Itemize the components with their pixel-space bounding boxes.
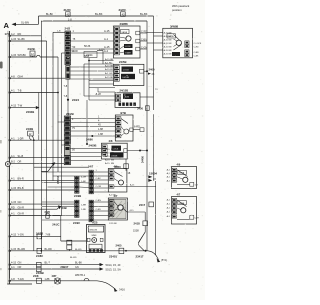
svg-text:BL-?: BL-? <box>45 261 51 265</box>
svg-text:A-1: A-1 <box>167 207 171 210</box>
svg-text:4-8: 4-8 <box>11 74 15 78</box>
svg-text:LOCK: LOCK <box>125 46 131 48</box>
svg-text:1-BR: 1-BR <box>81 205 86 207</box>
wire riser to line A <box>38 16 40 24</box>
svg-text:A-15: A-15 <box>105 155 110 158</box>
svg-text:1-88: 1-88 <box>45 278 51 281</box>
svg-text:4-15: 4-15 <box>11 233 17 237</box>
svg-text:4-15: 4-15 <box>11 261 17 265</box>
svg-text:BL-RD: BL-RD <box>18 247 26 251</box>
starter switch element 4/7 (shaded) <box>108 194 127 225</box>
svg-text:A: A <box>4 21 10 30</box>
in-line connector ladder lower-right <box>89 200 91 204</box>
wire 2418 drop <box>144 226 146 232</box>
diagonal join bus <box>138 232 145 251</box>
svg-text:4-1: 4-1 <box>11 154 15 158</box>
svg-text:BN: BN <box>169 43 172 45</box>
svg-text:23401: 23401 <box>109 254 117 258</box>
frame 24/24 label box <box>84 52 97 58</box>
svg-text:Y-GN: Y-GN <box>18 233 24 237</box>
connector bar 24/2 (upper) <box>65 27 71 80</box>
wire from bus y=190 <box>10 189 75 191</box>
wire y64 to lock unit <box>84 63 114 65</box>
svg-text:7-88: 7-88 <box>45 234 51 237</box>
svg-text:4-15: 4-15 <box>11 104 17 108</box>
wire from bus y=157.7 <box>10 157 64 159</box>
ignition switch box S/W88 <box>114 22 141 58</box>
svg-text:1-BK: 1-BK <box>81 181 86 183</box>
steering lock unit 24/5B <box>114 60 144 85</box>
wire from bus y=250.8 <box>10 250 148 252</box>
svg-text:24/2B: 24/2B <box>28 47 35 51</box>
svg-text:BN: BN <box>169 53 172 55</box>
stubs box1 to V1 <box>140 32 147 34</box>
diagonal to bus <box>139 232 146 243</box>
svg-text:3450: 3450 <box>137 106 143 110</box>
svg-text:7-8: 7-8 <box>64 84 68 88</box>
svg-text:BN: BN <box>169 39 172 41</box>
svg-text:T-W: T-W <box>18 104 23 108</box>
wires lower group2 <box>48 215 75 217</box>
svg-text:24/8C: 24/8C <box>36 254 43 258</box>
svg-text:24/8: 24/8 <box>33 274 39 278</box>
box4 right wire <box>133 129 140 131</box>
svg-text:4/8: 4/8 <box>109 139 113 143</box>
svg-text:24/2B: 24/2B <box>26 127 33 131</box>
svg-text:GN-R: GN-R <box>18 205 25 209</box>
wire riser x=60.8 lower <box>60 216 62 241</box>
svg-text:4-2: 4-2 <box>11 32 15 36</box>
wire from bus y=180.6 <box>10 180 75 182</box>
svg-text:A-1: A-1 <box>167 215 171 218</box>
connector bar 24/2B (lower) <box>64 112 73 165</box>
wire bar2-box4 y=118.5 <box>71 118 116 120</box>
svg-text:BL-RD: BL-RD <box>75 249 82 251</box>
wire into box3 <box>98 91 115 93</box>
svg-text:WH-BK: WH-BK <box>18 53 27 57</box>
wire from bus y=140.2 <box>10 139 64 141</box>
svg-text:A-1: A-1 <box>167 211 171 214</box>
lock solenoid 4/8 <box>102 139 128 159</box>
wire y176 <box>53 175 90 177</box>
wire bar1 tail <box>67 79 69 117</box>
svg-text:SL-B: SL-B <box>18 154 24 158</box>
main bus V2 x=153.5 <box>153 16 155 110</box>
wires lower group <box>42 201 75 203</box>
svg-text:5013, 15, 5A: 5013, 15, 5A <box>106 267 121 271</box>
stub y50.5 <box>97 50 103 52</box>
connector 34/2C on line A <box>119 8 126 17</box>
wire y209.2 with up arrow <box>10 208 57 210</box>
svg-text:4/7: 4/7 <box>177 193 181 197</box>
wire bar2-box4 y=122.5 <box>71 122 116 124</box>
control module A/C 8W <box>87 222 106 253</box>
junction on V1 y150 <box>146 150 148 152</box>
svg-text:24/2: 24/2 <box>65 27 71 31</box>
svg-text:SL-BK: SL-BK <box>18 37 26 41</box>
wire 4-15 T-W with arrow <box>10 107 36 109</box>
svg-text:A-15 BN: A-15 BN <box>105 65 114 68</box>
svg-text:7-8: 7-8 <box>64 94 68 98</box>
wire bar2-box4 y=126.5 <box>71 126 116 128</box>
svg-text:4/9: 4/9 <box>114 165 118 169</box>
svg-text:WR/7B-1: WR/7B-1 <box>75 274 86 277</box>
svg-text:BL-BK: BL-BK <box>95 12 103 16</box>
svg-text:24/66: 24/66 <box>86 137 93 141</box>
scan speckle <box>1 2 203 297</box>
svg-text:1-DR: 1-DR <box>18 136 24 140</box>
wire bar1 to switch y=53 <box>71 52 114 54</box>
wire y187 <box>48 186 75 188</box>
svg-text:A-15: A-15 <box>104 29 110 33</box>
svg-text:73: 73 <box>155 89 158 91</box>
box3 right wire <box>140 96 154 98</box>
svg-text:24/24B: 24/24B <box>111 155 118 157</box>
svg-text:4-15: 4-15 <box>11 186 17 190</box>
svg-text:C-GN: C-GN <box>141 46 147 49</box>
wire bar2-box4 y=136 <box>71 135 116 137</box>
svg-text:GARA: GARA <box>121 31 127 34</box>
svg-text:4-1: 4-1 <box>11 89 15 93</box>
svg-text:C-BN: C-BN <box>194 52 199 54</box>
svg-text:SL-BN: SL-BN <box>21 20 29 24</box>
svg-text:C-BK: C-BK <box>194 56 199 58</box>
wire drop x=87 to box5 <box>86 100 88 144</box>
svg-text:A-15: A-15 <box>130 184 135 187</box>
wire y183 <box>42 182 75 184</box>
svg-text:b: b <box>146 108 148 110</box>
svg-text:RD: RD <box>11 205 15 209</box>
left harness bus <box>7 31 9 284</box>
in-line connector ladder upper-right <box>89 170 91 174</box>
connector 24/2B mid <box>26 127 33 136</box>
svg-text:24/5B: 24/5B <box>119 60 126 64</box>
wire from bus y=35.8 <box>10 35 42 37</box>
wire y167.2 branch <box>34 166 89 168</box>
wire from bus y=269 <box>10 268 100 270</box>
riser x103 <box>102 51 104 65</box>
svg-text:A-1: A-1 <box>167 179 171 182</box>
svg-text:BL-BK: BL-BK <box>46 13 53 16</box>
wire bar2-box4 y=131 <box>71 130 116 132</box>
wire riser x=53 <box>52 32 54 180</box>
svg-text:A-1 RD: A-1 RD <box>105 61 113 64</box>
svg-text:4-15: 4-15 <box>11 247 17 251</box>
svg-text:24/9B: 24/9B <box>74 194 81 198</box>
svg-text:LOCK: LOCK <box>113 149 119 151</box>
svg-text:BL-RD: BL-RD <box>70 257 77 259</box>
svg-text:A-1: A-1 <box>167 176 171 179</box>
svg-text:50: 50 <box>72 148 75 152</box>
svg-text:C-RD: C-RD <box>96 209 102 211</box>
svg-text:1538: 1538 <box>133 229 139 233</box>
svg-text:4/7B: 4/7B <box>120 111 126 115</box>
svg-text:GN: GN <box>75 266 79 269</box>
connector 24/2B upper <box>28 47 36 57</box>
wire y60.5 to lock unit <box>89 60 114 62</box>
wire line A (y=16) <box>39 15 154 17</box>
svg-text:1 RD BK: 1 RD BK <box>109 223 117 225</box>
svg-text:ALM: ALM <box>125 96 130 99</box>
svg-text:OR: OR <box>18 160 22 164</box>
box7 right wire <box>127 211 145 213</box>
svg-text:2400B: 2400B <box>89 144 97 148</box>
svg-text:A-15 BN: A-15 BN <box>105 58 114 61</box>
connector pair above module <box>67 240 72 244</box>
bus bottom corner <box>7 283 32 285</box>
starter contact 4/7 (right) <box>167 193 200 224</box>
in-line connector ladder upper-left <box>75 176 77 180</box>
svg-text:17A: 17A <box>5 32 11 36</box>
svg-text:12: 12 <box>29 133 32 136</box>
junction 24/66 <box>91 135 93 137</box>
svg-text:2405: 2405 <box>116 243 122 247</box>
svg-text:24/24: 24/24 <box>86 53 93 57</box>
svg-text:24/15B: 24/15B <box>120 88 129 92</box>
svg-text:4/8LDM: 4/8LDM <box>89 229 97 231</box>
wire bar1 to switch y=33 <box>71 32 114 34</box>
svg-text:BN-R: BN-R <box>18 177 24 181</box>
svg-text:BL-RD: BL-RD <box>45 248 53 251</box>
margin artifact <box>0 62 3 69</box>
svg-text:C-OR: C-OR <box>96 186 102 188</box>
curve to 2416 <box>97 281 116 289</box>
svg-text:4/9: 4/9 <box>177 163 181 167</box>
svg-text:4-15: 4-15 <box>11 200 17 204</box>
wire from bus y=204.1 <box>10 203 75 205</box>
arrowhead 5013 <box>100 267 104 270</box>
svg-text:23: 23 <box>153 178 156 181</box>
svg-text:4/7: 4/7 <box>114 194 118 198</box>
connector 31/30 on line A <box>64 8 71 17</box>
wire from bus y=78.2 <box>10 77 65 79</box>
svg-text:position: position <box>172 8 182 12</box>
switch element 4/9 <box>108 165 127 197</box>
svg-text:A-15: A-15 <box>104 45 110 49</box>
wire riser x=41.3 <box>40 21 42 251</box>
V2 lower <box>153 114 155 181</box>
svg-text:34/2C: 34/2C <box>119 8 126 12</box>
junction x58/y92.5 <box>57 92 59 94</box>
wire bar1-left stub y53 <box>62 52 66 54</box>
ground ring on bus <box>5 162 10 167</box>
passlock ignition switch 3/W88 <box>147 24 202 58</box>
wire drop x=89 <box>88 58 90 100</box>
svg-text:24456: 24456 <box>142 155 145 163</box>
junction on V1 <box>146 70 148 72</box>
svg-text:3/W88: 3/W88 <box>170 24 179 28</box>
svg-text:A-2: A-2 <box>104 49 109 53</box>
svg-text:5-2H: 5-2H <box>194 218 199 220</box>
svg-text:(5Y1): (5Y1) <box>161 258 167 262</box>
wire from bus y=41 <box>10 40 47 42</box>
bar1 pin dot <box>67 36 69 38</box>
svg-text:24/2C: 24/2C <box>52 222 59 226</box>
svg-text:A-1: A-1 <box>167 199 171 202</box>
svg-text:OR: OR <box>18 265 22 269</box>
svg-text:12: 12 <box>31 53 34 56</box>
svg-text:A-1: A-1 <box>167 203 171 206</box>
svg-text:4-15: 4-15 <box>11 53 17 57</box>
svg-text:BN-B: BN-B <box>18 186 24 190</box>
svg-text:24/9C: 24/9C <box>73 221 80 225</box>
wire riser x=38.8 <box>38 93 40 141</box>
ladder-out wires upper <box>93 171 108 173</box>
wire bar1 to switch y=41 <box>71 40 114 42</box>
connector 24/2B tails <box>29 136 34 140</box>
wire line B (y=21) <box>41 20 147 22</box>
svg-text:C-LOCK: C-LOCK <box>194 43 202 45</box>
svg-text:31/30: 31/30 <box>64 8 71 12</box>
svg-text:BL-BK: BL-BK <box>140 12 148 16</box>
in-line connector ladder lower-left <box>75 200 77 204</box>
svg-text:2402B: 2402B <box>26 110 34 114</box>
bar2 left link y122 <box>58 121 65 123</box>
svg-text:GN4: GN4 <box>18 74 24 78</box>
wire y57 with hop <box>10 56 37 58</box>
svg-text:5-7: 5-7 <box>195 184 199 186</box>
svg-text:B-2: B-2 <box>11 160 16 164</box>
svg-text:C-BK: C-BK <box>96 178 102 180</box>
svg-text:24/7: 24/7 <box>88 165 94 169</box>
junction x33.8/y140.2 <box>33 139 35 141</box>
svg-text:MM8: MM8 <box>92 235 98 237</box>
connectors on bottom arrow wires <box>37 262 42 266</box>
accessory switch 4/9 (right) <box>167 163 199 189</box>
main bus V1 x=147 <box>146 21 148 251</box>
svg-text:GN: GN <box>18 261 22 265</box>
wire riser x=46.6 <box>46 41 48 216</box>
junction dots on bus <box>40 250 42 252</box>
svg-text:T-GN: T-GN <box>18 277 24 281</box>
wire drop x=84 <box>83 64 85 96</box>
bar2 left link y145 <box>62 144 65 146</box>
svg-text:24/24B: 24/24B <box>122 77 129 79</box>
svg-text:4/87: 4/87 <box>52 275 57 278</box>
svg-text:BN: BN <box>169 50 172 52</box>
svg-text:RD: RD <box>18 32 22 36</box>
svg-text:GN: GN <box>18 200 22 204</box>
svg-text:BN: BN <box>169 46 172 48</box>
svg-text:A-15: A-15 <box>105 162 110 165</box>
svg-text:LOCK: LOCK <box>123 70 129 72</box>
svg-text:A-15 BK: A-15 BK <box>105 76 114 79</box>
svg-text:4-8: 4-8 <box>11 277 15 281</box>
svg-text:1-8: 1-8 <box>68 17 72 21</box>
bus end curve <box>148 251 159 260</box>
svg-text:24/24: 24/24 <box>72 98 79 102</box>
wire box2 to bus V1 <box>144 70 147 72</box>
svg-text:1-B: 1-B <box>57 31 61 33</box>
svg-text:A-15 RD: A-15 RD <box>105 68 114 71</box>
svg-text:2417: 2417 <box>139 203 146 207</box>
svg-text:23B07: 23B07 <box>60 265 68 269</box>
svg-text:START: START <box>125 52 132 55</box>
svg-text:T-B: T-B <box>18 89 22 93</box>
ignition switch element 4/7B <box>115 111 133 141</box>
svg-text:1-RD: 1-RD <box>81 209 87 211</box>
note: with passlock position <box>172 4 190 12</box>
svg-text:2418: 2418 <box>134 222 141 226</box>
wire from bus y=280.8 <box>10 280 97 282</box>
svg-text:15004: 15004 <box>149 171 157 175</box>
wires bar2 to lower-right <box>71 148 102 150</box>
junction arrows right <box>148 175 152 178</box>
ladder-out wires lower <box>93 201 108 203</box>
wire y172 <box>42 171 89 173</box>
wire from bus y=236.4 <box>10 235 61 237</box>
svg-text:4-DR: 4-DR <box>81 176 87 178</box>
wire box5 to V1 <box>127 150 147 152</box>
svg-text:4-1: 4-1 <box>11 265 15 269</box>
svg-text:3/W88: 3/W88 <box>120 22 129 26</box>
svg-text:5014, 15, 4F: 5014, 15, 4F <box>106 263 121 267</box>
svg-text:2416: 2416 <box>119 287 125 291</box>
wires bar1 to lock unit <box>71 66 114 68</box>
box6 right wire <box>127 186 156 188</box>
connector 24/8C on bus <box>37 248 42 253</box>
diagonal arrow 15004 <box>48 165 53 171</box>
node A (off-page arrow) <box>4 21 39 30</box>
svg-text:58-36: 58-36 <box>84 45 91 48</box>
connector on y280 <box>37 278 42 283</box>
bus junction ticks <box>9 35 11 37</box>
wire riser x=33.8 <box>33 140 35 251</box>
arrowhead 5014 <box>100 263 104 266</box>
svg-text:BL-BK: BL-BK <box>75 262 82 265</box>
svg-text:C-BN: C-BN <box>96 200 102 202</box>
svg-text:BN: BN <box>111 160 114 162</box>
svg-text:4-15: 4-15 <box>11 37 17 41</box>
svg-text:2400: 2400 <box>149 68 155 72</box>
V3 x=155.7 <box>155 181 157 255</box>
svg-text:C-RD: C-RD <box>194 47 200 49</box>
svg-text:A-1: A-1 <box>167 169 171 172</box>
junction 2400B <box>86 143 88 145</box>
svg-text:1: 1 <box>72 117 74 121</box>
interlock unit 24/15B <box>115 88 140 107</box>
wire y241 to module <box>61 240 87 242</box>
svg-text:4-1: 4-1 <box>11 177 15 181</box>
svg-text:4-1: 4-1 <box>11 212 15 216</box>
connector 3450 on V1 <box>146 106 150 111</box>
wire drop box5 to 2450 <box>125 159 127 171</box>
wire bar1 row y32.3 <box>53 31 65 33</box>
svg-text:1-88: 1-88 <box>98 128 104 131</box>
svg-text:24/2B: 24/2B <box>66 112 74 116</box>
wire riser x=58 <box>57 57 59 172</box>
svg-text:A-1 GN: A-1 GN <box>105 72 113 75</box>
wire from bus y=92.5 <box>10 92 58 94</box>
junction x140 <box>139 150 141 152</box>
wire from bus y=215.5 <box>10 215 61 217</box>
wire from bus y=163.4 <box>10 162 64 164</box>
wire from bus y=264.6 <box>10 264 100 266</box>
wire bar1 to switch y=49 <box>71 48 114 50</box>
svg-text:23417: 23417 <box>136 254 144 258</box>
branch to diagonal arrow <box>41 170 48 172</box>
svg-text:18: 18 <box>128 172 131 175</box>
ground junction 24/2A <box>67 99 69 101</box>
svg-text:A-1: A-1 <box>104 37 109 41</box>
wires below box2 <box>89 80 113 82</box>
svg-text:1-88: 1-88 <box>98 133 104 136</box>
svg-text:W-DR: W-DR <box>72 51 79 53</box>
svg-text:4-1: 4-1 <box>11 136 15 140</box>
wire riser x=61.5 <box>61 53 63 216</box>
